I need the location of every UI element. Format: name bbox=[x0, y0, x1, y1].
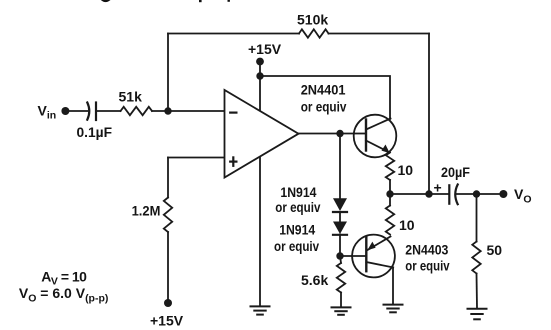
wire: 2N4401 emitter to 10 ohm bbox=[389, 180, 391, 194]
resistor 50 bbox=[472, 242, 480, 274]
node: diode/base lower junction bbox=[336, 252, 343, 259]
wire: lower node down to 5.6k bbox=[340, 256, 341, 263]
svg-text:+: + bbox=[434, 180, 442, 196]
wire: Vin to 0.1uF cap bbox=[65, 110, 88, 112]
capacitor 0.1uF bbox=[87, 103, 96, 121]
caption descender p (cut off at top) bbox=[199, 0, 202, 2]
wire: Vo node down to 50 ohm bbox=[476, 194, 478, 242]
wire: 2N4403 collector to ground bbox=[392, 268, 394, 305]
resistor 10 upper bbox=[386, 153, 394, 181]
node: emitters output junction bbox=[386, 190, 393, 197]
wire: +15V branch to 2N4401 collector bbox=[260, 76, 390, 119]
wire: feedback left vertical bbox=[167, 34, 169, 112]
node: inverting input junction bbox=[164, 107, 171, 114]
wire: 20uF cap to Vo terminal bbox=[456, 193, 503, 195]
caption descender g (cut off at top) bbox=[101, 0, 111, 2]
svg-text:VO = 6.0 V(p-p): VO = 6.0 V(p-p) bbox=[19, 285, 109, 305]
node: op-amp output junction bbox=[336, 130, 343, 137]
node: feedback tap junction bbox=[425, 190, 432, 197]
wire: 5.6k to ground bbox=[340, 293, 342, 308]
svg-text:or equiv: or equiv bbox=[301, 98, 347, 114]
node: 50 ohm tap junction bbox=[473, 190, 480, 197]
svg-text:50: 50 bbox=[487, 242, 503, 258]
resistor 10 lower bbox=[386, 206, 394, 235]
diode D1 1N914 bbox=[333, 198, 347, 212]
svg-text:510k: 510k bbox=[297, 12, 328, 28]
svg-text:+15V: +15V bbox=[248, 41, 282, 57]
svg-text:+15V: +15V bbox=[150, 312, 184, 328]
ground (5.6k) bbox=[332, 307, 351, 314]
node: Vo output terminal bbox=[499, 190, 507, 198]
wire: 50 ohm to ground bbox=[476, 274, 479, 308]
wire: output node down to diodes bbox=[339, 134, 341, 199]
wire: lower node to 2N4403 base bbox=[340, 255, 366, 257]
svg-text:10: 10 bbox=[399, 217, 415, 233]
wire: +15V rail down through op-amp to ground bbox=[259, 62, 261, 307]
transistor Q2 2N4403 bbox=[352, 235, 395, 278]
capacitor 20uF bbox=[449, 185, 457, 205]
wire: feedback top right segment bbox=[329, 33, 430, 35]
resistor 51k bbox=[121, 107, 153, 115]
wire: 1.2M to +15V terminal bbox=[167, 232, 169, 303]
svg-text:20µF: 20µF bbox=[441, 164, 470, 180]
svg-text:0.1µF: 0.1µF bbox=[77, 124, 113, 140]
resistor 510k bbox=[299, 29, 329, 37]
transistor Q1 2N4401 bbox=[354, 115, 397, 158]
wire: noninverting input horizontal bbox=[168, 157, 225, 159]
diode D2 1N914 bbox=[333, 222, 347, 235]
svg-text:51k: 51k bbox=[119, 89, 143, 105]
svg-text:2N4403: 2N4403 bbox=[405, 241, 448, 257]
wire: feedback right vertical down to output node bbox=[428, 34, 430, 195]
ground (op-amp) bbox=[251, 306, 270, 314]
svg-text:5.6k: 5.6k bbox=[301, 272, 328, 288]
svg-text:1N914: 1N914 bbox=[280, 184, 316, 200]
wire: noninverting input down to 1.2M bbox=[167, 158, 169, 198]
ground (2N4403 collector) bbox=[384, 305, 403, 313]
resistor 5.6k bbox=[337, 263, 345, 293]
node: +15V branch junction bbox=[256, 72, 263, 79]
wire: op-amp output to 2N4401 base bbox=[299, 133, 355, 135]
svg-text:or equiv: or equiv bbox=[405, 257, 449, 273]
wire: feedback top left segment bbox=[168, 33, 299, 35]
svg-text:or equiv: or equiv bbox=[274, 238, 319, 254]
ground (50 ohm) bbox=[468, 309, 487, 320]
wire: diode 2 to lower node bbox=[339, 235, 341, 257]
wire: between diodes bbox=[339, 212, 341, 222]
wire: node to lower 10 ohm bbox=[389, 194, 391, 206]
caption descender comma (cut off at top) bbox=[228, 0, 230, 2]
node: +15V bottom terminal bbox=[164, 299, 172, 307]
wire: output node row bbox=[390, 193, 449, 195]
node: Vin input terminal bbox=[61, 107, 69, 115]
wire: 51k to op-amp inverting input bbox=[152, 110, 225, 112]
op-amp U1 bbox=[225, 90, 299, 178]
resistor 1.2M bbox=[164, 198, 172, 233]
svg-text:1.2M: 1.2M bbox=[132, 203, 161, 219]
svg-text:or equiv: or equiv bbox=[275, 199, 320, 215]
svg-text:Vin: Vin bbox=[38, 102, 57, 121]
node: +15V top terminal bbox=[256, 58, 264, 66]
wire: 0.1uF cap to 51k bbox=[96, 110, 121, 112]
svg-text:10: 10 bbox=[398, 162, 414, 178]
svg-text:1N914: 1N914 bbox=[279, 221, 315, 237]
svg-text:VO: VO bbox=[514, 186, 532, 206]
svg-text:2N4401: 2N4401 bbox=[301, 81, 346, 97]
